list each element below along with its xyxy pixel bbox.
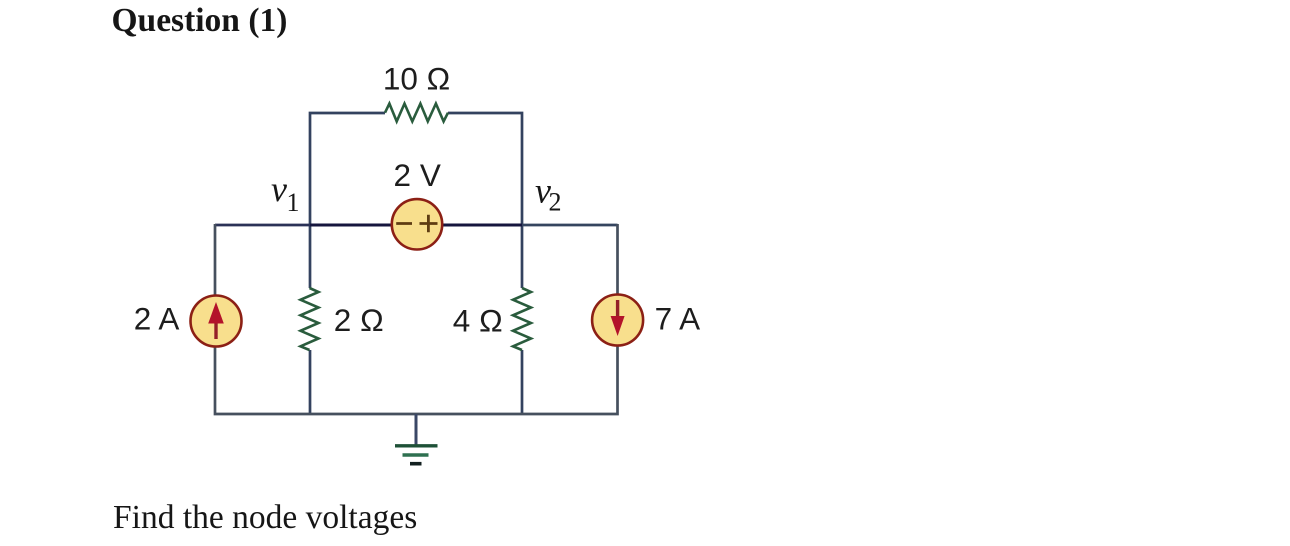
svg-text:4 Ω: 4 Ω: [453, 302, 503, 338]
svg-text:2: 2: [549, 188, 562, 217]
svg-text:10 Ω: 10 Ω: [383, 61, 450, 97]
svg-text:2 V: 2 V: [394, 157, 441, 193]
svg-text:Find the node voltages: Find the node voltages: [113, 499, 417, 536]
svg-text:Question (1): Question (1): [112, 2, 288, 39]
svg-text:2 A: 2 A: [134, 301, 180, 337]
svg-text:1: 1: [287, 188, 300, 217]
svg-text:2 Ω: 2 Ω: [334, 302, 384, 338]
svg-text:7 A: 7 A: [655, 301, 701, 337]
svg-text:v: v: [271, 169, 287, 209]
